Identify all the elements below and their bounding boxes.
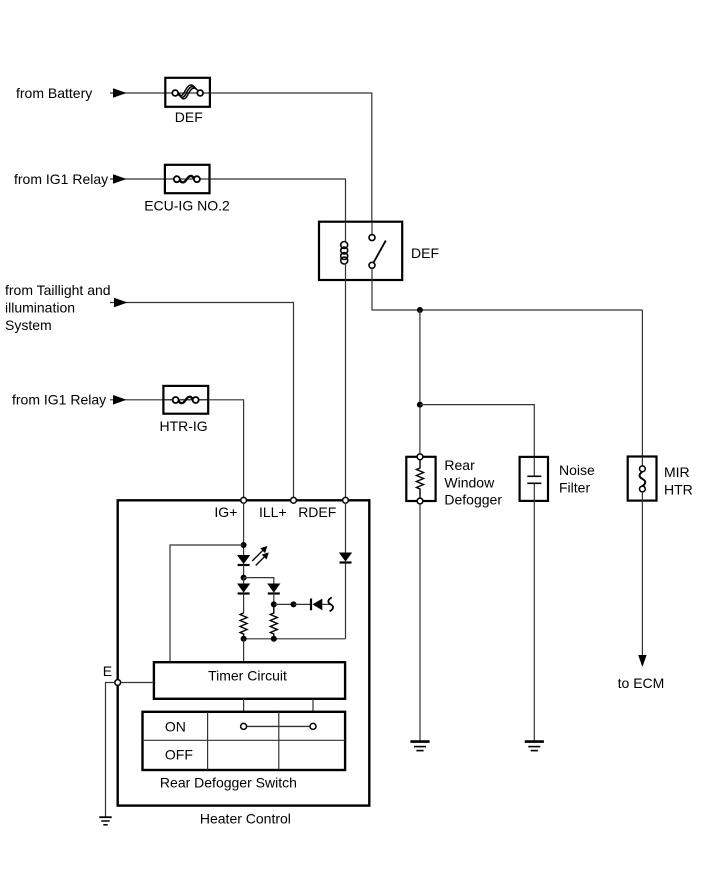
- label Rear Defogger Switch: [160, 775, 297, 791]
- rear defogger switch table: [143, 712, 346, 770]
- terminal ILL+: [291, 497, 297, 503]
- svg-text:Filter: Filter: [559, 479, 590, 495]
- ground below rear window defogger: [410, 742, 429, 751]
- junction to noise filter: [417, 402, 423, 408]
- wire noise filter to ground: [533, 501, 535, 741]
- value label HTR-IG: [159, 418, 207, 434]
- wire fuse HTR-IG to IG+: [208, 400, 243, 498]
- wire from Taillight to ILL+: [110, 303, 294, 498]
- node D3 output: [271, 601, 277, 607]
- pin label E: [103, 663, 112, 679]
- fuse DEF (fusible link): [165, 78, 210, 107]
- timer circuit box: [154, 662, 345, 699]
- wire timer to switch right: [312, 699, 314, 712]
- wire relay coil to RDEF: [345, 280, 347, 497]
- svg-text:IG+: IG+: [214, 504, 237, 520]
- junction bus to defogger: [417, 307, 423, 313]
- switch contact ON row: [241, 723, 316, 729]
- svg-text:RDEF: RDEF: [298, 504, 336, 520]
- diode D5: [339, 553, 352, 639]
- svg-text:from Taillight and: from Taillight and: [5, 282, 111, 298]
- wire junction to noise filter: [420, 405, 534, 457]
- svg-text:DEF: DEF: [175, 109, 203, 125]
- heater control box: [118, 500, 370, 805]
- wire branch to right diode: [244, 578, 274, 584]
- wire from IG1 Relay to fuse ECU-IG NO.2: [110, 178, 166, 180]
- wire D3 to ILL+ line: [274, 603, 294, 605]
- diode D2 left: [237, 578, 250, 613]
- svg-text:ILL+: ILL+: [259, 504, 287, 520]
- LED indicator diode: [237, 555, 250, 578]
- wire bottom bus to timer circuit: [243, 639, 245, 662]
- arrow from Battery: [113, 88, 127, 98]
- wire relay switch output bus: [372, 280, 642, 310]
- label Heater Control: [200, 810, 291, 826]
- svg-text:to ECM: to ECM: [618, 675, 665, 691]
- label to ECM: [618, 675, 665, 691]
- value label ECU-IG NO.2: [144, 198, 230, 214]
- LED arrows: [252, 546, 269, 566]
- label Noise Filter: [559, 462, 595, 495]
- svg-text:DEF: DEF: [411, 245, 439, 261]
- svg-text:ECU-IG NO.2: ECU-IG NO.2: [144, 198, 230, 214]
- label ON: [165, 718, 186, 734]
- wire fuse ECU-IG NO.2 to relay coil: [210, 179, 346, 222]
- relay DEF: [319, 222, 402, 280]
- svg-text:Rear Defogger Switch: Rear Defogger Switch: [160, 775, 297, 791]
- fuse ECU-IG NO.2: [165, 165, 210, 193]
- arrow to ECM: [638, 655, 646, 667]
- svg-text:MIR: MIR: [664, 464, 690, 480]
- node ILL+ junction: [291, 601, 297, 607]
- svg-text:Heater Control: Heater Control: [200, 810, 291, 826]
- arrow from IG1 Relay: [113, 174, 127, 184]
- label from Battery: [16, 85, 92, 101]
- svg-text:Noise: Noise: [559, 462, 595, 478]
- node below LED: [241, 575, 247, 581]
- label from Taillight and illumination System: [5, 282, 111, 333]
- resistor R1: [240, 613, 247, 639]
- svg-text:Defogger: Defogger: [444, 492, 502, 508]
- svg-text:ON: ON: [165, 718, 186, 734]
- ground below noise filter: [525, 742, 544, 751]
- wire ILL+ junction to diode D4: [294, 603, 312, 605]
- svg-text:from IG1 Relay: from IG1 Relay: [12, 392, 106, 408]
- wire defogger to ground: [419, 504, 421, 741]
- node R1 bottom: [241, 636, 247, 642]
- rear window defogger: [406, 454, 435, 504]
- label from IG1 Relay: [14, 171, 108, 187]
- label DEF relay: [411, 245, 439, 261]
- svg-text:Timer Circuit: Timer Circuit: [208, 668, 287, 684]
- pin label RDEF: [298, 504, 336, 520]
- svg-text:OFF: OFF: [165, 747, 193, 763]
- value label DEF: [175, 109, 203, 125]
- wire timer to switch left: [243, 699, 245, 712]
- ground E: [99, 817, 111, 825]
- svg-text:System: System: [5, 317, 52, 333]
- svg-text:from Battery: from Battery: [16, 85, 92, 101]
- svg-text:HTR: HTR: [664, 481, 693, 497]
- arrow from Taillight: [114, 298, 128, 308]
- svg-text:E: E: [103, 663, 112, 679]
- fuse HTR-IG: [163, 386, 208, 414]
- terminal IG+: [241, 497, 247, 503]
- svg-text:Rear: Rear: [444, 457, 475, 473]
- svg-text:HTR-IG: HTR-IG: [159, 418, 207, 434]
- terminal RDEF: [343, 497, 349, 503]
- arrow from IG1 Relay 2: [113, 395, 127, 405]
- diode D4 with break: [311, 598, 333, 612]
- svg-text:from IG1 Relay: from IG1 Relay: [14, 171, 108, 187]
- label Rear Window Defogger: [444, 457, 502, 508]
- wire E to ground: [106, 683, 115, 817]
- wire from IG1 Relay to fuse HTR-IG: [110, 399, 164, 401]
- wire MIR HTR to ECM: [641, 501, 643, 656]
- svg-text:Window: Window: [444, 474, 495, 490]
- pin label IG+: [214, 504, 237, 520]
- node R2 bottom: [271, 636, 277, 642]
- wire IG+ branch to timer circuit: [170, 545, 244, 662]
- label from IG1 Relay (HTR-IG): [12, 392, 106, 408]
- wire RDEF into diode D5: [345, 503, 347, 552]
- pin label ILL+: [259, 504, 287, 520]
- terminal E: [115, 680, 121, 686]
- relay coil: [341, 222, 348, 280]
- wire E to timer circuit: [121, 682, 154, 684]
- label MIR HTR: [664, 464, 693, 497]
- svg-text:illumination: illumination: [5, 300, 75, 316]
- wire bus down to MIR HTR: [641, 310, 643, 457]
- MIR HTR element: [628, 457, 657, 501]
- wire from Battery to fuse DEF: [110, 92, 166, 94]
- wire IG+ into LED: [243, 503, 245, 555]
- diode D3 right: [267, 584, 280, 605]
- node IG+ branch: [241, 542, 247, 548]
- wire resistor bottoms bus: [244, 638, 346, 640]
- relay switch contact: [369, 222, 386, 280]
- wire bus down to rear window defogger: [419, 310, 421, 454]
- resistor R2: [270, 604, 277, 638]
- wire fuse DEF to relay switch: [210, 93, 372, 222]
- noise filter (capacitor): [520, 457, 548, 501]
- label OFF: [165, 747, 193, 763]
